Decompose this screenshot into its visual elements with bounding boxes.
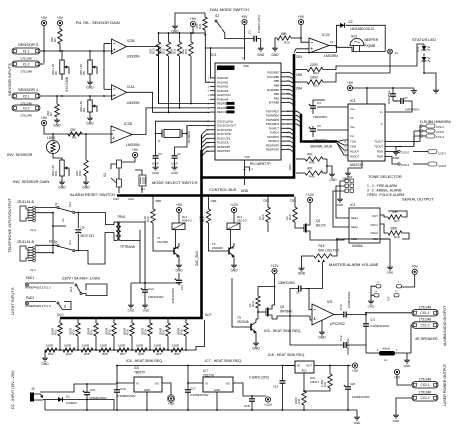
regulator IC7 7812: [203, 369, 233, 392]
resistor R49 47K: [296, 167, 327, 179]
capacitor C5: [309, 124, 349, 142]
svg-text:SDO/RC5: SDO/RC5: [267, 135, 279, 139]
svg-text:RC0/T1OSO: RC0/T1OSO: [217, 128, 232, 132]
svg-text:BS170: BS170: [316, 224, 326, 228]
svg-text:330K: 330K: [390, 227, 398, 231]
svg-text:CB1: CB1: [296, 55, 302, 59]
ground IC5: [318, 320, 326, 340]
svg-text:2SC945: 2SC945: [157, 240, 168, 244]
label DC1: [49, 240, 56, 244]
wire ICP left: [371, 286, 376, 299]
svg-text:R18: R18: [394, 235, 400, 239]
svg-text:VI: VI: [205, 382, 208, 386]
wire phone joins: [35, 212, 54, 254]
svg-text:100R: 100R: [118, 344, 126, 348]
op-amp IC2B: [112, 39, 140, 59]
svg-text:10K: 10K: [170, 49, 174, 54]
svg-text:CX3-2: CX3-2: [401, 151, 409, 155]
svg-text:GND: GND: [58, 186, 66, 190]
label SERIAL OUTPUT: [402, 197, 434, 202]
svg-text:RA3/AN3: RA3/AN3: [217, 89, 229, 93]
svg-text:+5V: +5V: [168, 402, 175, 406]
svg-text:CX3-6: CX3-6: [436, 130, 444, 134]
svg-text:V-: V-: [380, 122, 383, 126]
svg-text:20K LIN: 20K LIN: [51, 165, 55, 176]
svg-text:CB4: CB4: [296, 87, 302, 91]
power +5V ICP: [402, 265, 419, 287]
svg-text:D2: D2: [349, 20, 353, 24]
svg-text:SENSOR 1: SENSOR 1: [18, 87, 39, 92]
svg-text:2SD400: 2SD400: [212, 246, 223, 250]
svg-text:20K: 20K: [50, 37, 54, 42]
wire pot left gnd: [302, 256, 315, 266]
svg-text:GND: GND: [271, 53, 279, 57]
resistor R24 100R: [63, 344, 75, 356]
label SENSOR 0: [18, 42, 39, 47]
resistor R25 100R: [81, 344, 93, 356]
connector CX3-3: [385, 157, 446, 169]
svg-text:C11: C11: [370, 318, 376, 322]
ground dsub: [393, 147, 402, 161]
svg-text:CX1-1: CX1-1: [420, 311, 429, 315]
svg-text:LM339N: LM339N: [324, 54, 338, 58]
connector CX1-1: [412, 305, 438, 316]
power +12V amp: [270, 264, 279, 274]
resistor R31 200R: [51, 319, 63, 350]
svg-text:Q3: Q3: [280, 305, 284, 309]
relay RL1: [172, 215, 192, 230]
svg-text:7805TV: 7805TV: [134, 371, 146, 375]
svg-text:RL2: RL2: [237, 215, 243, 219]
resistor R5: [50, 26, 62, 51]
capacitor C13: [171, 273, 184, 303]
resistor R30 100R: [171, 344, 183, 356]
resistor R20 1K: [258, 203, 270, 232]
svg-text:INV. SENSOR GAIN: INV. SENSOR GAIN: [13, 179, 49, 184]
svg-text:IC2C: IC2C: [322, 33, 331, 37]
ground pullups: [329, 172, 337, 182]
svg-text:D-SUB9-H9M09RA: D-SUB9-H9M09RA: [420, 120, 452, 124]
svg-text:1MFD/100V: 1MFD/100V: [171, 288, 175, 303]
label DAC_BUS: [195, 251, 199, 266]
svg-text:RB5: RB5: [274, 79, 280, 83]
svg-text:RL1: RL1: [182, 215, 188, 219]
label tone option 3: [367, 193, 404, 197]
resistor RD2 220R: [294, 73, 390, 88]
svg-text:CB8: CB8: [155, 199, 161, 203]
svg-text:+5V: +5V: [190, 17, 197, 21]
resistor R10 68K: [275, 32, 302, 46]
ground t3: [252, 341, 260, 351]
power +5V relay1: [176, 203, 183, 223]
svg-text:LASER POWER OUTPUT: LASER POWER OUTPUT: [443, 363, 447, 406]
svg-text:R10: R10: [284, 41, 290, 45]
relay contact RL2a: [69, 284, 82, 295]
connector X1-1: [12, 48, 40, 61]
label DIAL MODE SWITCH: [210, 7, 249, 12]
svg-text:R09: R09: [309, 161, 315, 165]
svg-text:GND: GND: [128, 309, 136, 313]
svg-text:GND: GND: [318, 336, 326, 340]
svg-text:RD2/PSP2: RD2/PSP2: [266, 148, 280, 152]
svg-text:OSC1: OSC1: [370, 223, 378, 227]
svg-text:C4: C4: [317, 101, 321, 105]
connector J3 jack: [30, 387, 43, 402]
svg-text:GND: GND: [175, 269, 183, 273]
capacitor C19: [273, 365, 286, 411]
svg-text:C7: C7: [404, 96, 408, 100]
resistor R33 200R: [87, 319, 99, 350]
svg-text:GND: GND: [354, 421, 362, 425]
svg-text:CX3-7: CX3-7: [438, 152, 446, 156]
transistor T3: [237, 316, 258, 335]
pad PAD2: [25, 296, 51, 308]
svg-text:C10: C10: [339, 304, 343, 310]
svg-text:F/QMB: F/QMB: [365, 44, 376, 48]
wire q3 supply: [258, 274, 275, 305]
wire laser gnd: [396, 398, 412, 413]
relay contact RL2b: [57, 302, 71, 310]
capacitor C20: [344, 366, 370, 411]
ground T2: [230, 263, 238, 273]
wire amp fb: [290, 316, 341, 345]
resistor R7: [46, 96, 59, 117]
capacitor C18: [244, 396, 255, 411]
svg-text:GND: GND: [257, 53, 265, 57]
svg-text:1K: 1K: [258, 216, 262, 220]
resistor R27 100R: [117, 344, 129, 356]
wire IC6 gnd: [146, 392, 148, 411]
svg-text:DC0: DC0: [57, 313, 64, 317]
svg-text:C2+: C2+: [350, 125, 355, 129]
svg-text:0.33MFD/50V: 0.33MFD/50V: [190, 393, 209, 397]
power +5V out: [167, 395, 175, 406]
label INV. SENSOR: [7, 152, 33, 157]
svg-text:R18: R18: [319, 244, 325, 248]
svg-text:J1-2: J1-2: [30, 228, 36, 232]
svg-text:SEL1: SEL1: [351, 216, 358, 220]
wire pad2 row: [29, 301, 56, 303]
wire T2 base: [209, 223, 225, 251]
capacitor C11: [363, 318, 390, 330]
power +12V out: [264, 397, 273, 407]
svg-text:100R: 100R: [100, 344, 108, 348]
transformer TRN1: [116, 215, 135, 249]
svg-text:20K LIN: 20K LIN: [79, 64, 83, 75]
svg-text:OUT: OUT: [372, 214, 378, 218]
svg-text:+5V: +5V: [412, 265, 419, 269]
wire pullup join: [326, 159, 332, 173]
svg-text:IC2D: IC2D: [124, 122, 133, 126]
svg-text:GND: GND: [41, 362, 49, 366]
connector X2-2: [12, 105, 40, 118]
svg-text:OSC2: OSC2: [370, 231, 378, 235]
potentiometer R9: [79, 96, 97, 116]
svg-text:DC - INPUT (15V - 25V): DC - INPUT (15V - 25V): [11, 371, 15, 409]
resistor R43 2.4R: [304, 366, 332, 392]
svg-text:22K: 22K: [75, 171, 79, 176]
svg-text:C2-: C2-: [350, 134, 354, 138]
svg-text:GND: GND: [144, 388, 150, 392]
connector J1-1 RJ11: [20, 246, 36, 272]
label MASTER ALARM VOLUME: [329, 262, 379, 267]
svg-text:1751248: 1751248: [419, 318, 432, 322]
svg-text:20K LIN: 20K LIN: [79, 101, 83, 112]
svg-text:V+: V+: [380, 110, 384, 114]
wire gnd spine: [131, 283, 180, 303]
svg-text:470MFD/50V: 470MFD/50V: [89, 396, 107, 400]
label CB1: [296, 55, 302, 59]
wire IC2C out: [296, 25, 385, 52]
svg-text:100R: 100R: [46, 344, 54, 348]
wire osc1: [155, 121, 210, 153]
wire opamp bias tie: [104, 44, 112, 90]
wire t3 base: [232, 278, 246, 327]
svg-text:DCF: DCF: [205, 313, 212, 317]
wire load box: [82, 284, 107, 296]
label DB3: [288, 164, 292, 170]
svg-text:IN: IN: [297, 364, 300, 368]
wire IC2A output: [127, 92, 210, 113]
ground ladder: [41, 356, 49, 366]
svg-text:DAC_BUS: DAC_BUS: [195, 251, 199, 266]
svg-text:ALARM RESET SWITCH: ALARM RESET SWITCH: [70, 192, 115, 197]
svg-text:BEEPER: BEEPER: [365, 38, 379, 42]
svg-text:MODE SELECT SWITCH: MODE SELECT SWITCH: [152, 180, 198, 185]
wire IC1 left pin stubs: [207, 78, 215, 153]
svg-text:CX3-4: CX3-4: [436, 135, 444, 139]
bus DAC horizontal: [60, 317, 203, 320]
svg-text:RD0/PSP0: RD0/PSP0: [217, 145, 231, 149]
crystal XT1: [156, 126, 192, 144]
svg-text:+5V: +5V: [57, 16, 64, 20]
svg-text:10MFD/36V: 10MFD/36V: [278, 281, 296, 285]
svg-text:200R: 200R: [159, 327, 163, 335]
svg-text:LM339N: LM339N: [127, 101, 140, 105]
svg-text:330R: 330R: [294, 397, 298, 404]
label ALARM RESET SWITCH: [70, 192, 115, 197]
svg-text:TRN1: TRN1: [117, 215, 126, 219]
photoresistor LDR1: [47, 134, 63, 160]
svg-text:1MFD/50V: 1MFD/50V: [313, 138, 327, 142]
svg-text:230V / 5A MAX. LOAD: 230V / 5A MAX. LOAD: [62, 277, 100, 281]
svg-text:CB3: CB3: [290, 199, 296, 203]
svg-text:CX3-8: CX3-8: [438, 164, 446, 168]
resistor R16b 1K: [285, 203, 300, 228]
wire IC4 vss: [380, 238, 390, 240]
wire RL2 coil: [231, 230, 235, 249]
svg-text:TPTRANS: TPTRANS: [120, 245, 135, 249]
svg-text:RX/RC7: RX/RC7: [269, 126, 279, 130]
power +12V relay2: [230, 203, 239, 223]
wire IC2C inputs: [294, 38, 309, 53]
ground pot right: [387, 265, 395, 275]
svg-text:SYS GAIN: SYS GAIN: [65, 76, 69, 92]
ground C1: [257, 46, 265, 57]
wire IC7 out: [233, 383, 266, 397]
switch S2: [215, 14, 222, 28]
svg-text:0.22MFD/100V: 0.22MFD/100V: [370, 324, 390, 328]
bus serial: [301, 114, 337, 142]
svg-text:+5V: +5V: [176, 203, 183, 207]
transistor T2: [212, 242, 234, 259]
power +12V Q2: [306, 193, 315, 221]
label sensor gain note: [76, 20, 120, 25]
svg-text:RD2: RD2: [313, 84, 319, 88]
resistor RD1 220R: [294, 44, 424, 75]
svg-text:C14: C14: [148, 287, 154, 291]
label DC INPUT: [11, 371, 15, 409]
svg-text:7812TV: 7812TV: [203, 373, 215, 377]
svg-text:S2: S2: [54, 240, 58, 244]
svg-text:GND: GND: [252, 347, 260, 351]
ground below R03: [82, 180, 90, 190]
wire bank col4: [190, 56, 192, 104]
svg-text:LP1: LP1: [347, 175, 353, 179]
svg-text:CX1-2: CX1-2: [420, 323, 429, 327]
svg-text:C1: C1: [248, 30, 252, 34]
svg-text:ROB-5-S: ROB-5-S: [182, 220, 192, 223]
svg-text:RA0/AN0: RA0/AN0: [217, 76, 229, 80]
svg-text:OPEN : POLICE ALARM: OPEN : POLICE ALARM: [367, 193, 404, 197]
power +5V max232: [347, 81, 414, 104]
label TELEPHONE IO: [7, 198, 12, 253]
svg-text:220R: 220R: [310, 76, 318, 80]
svg-text:UM66A: UM66A: [352, 244, 364, 248]
svg-text:OEC-3-S: OEC-3-S: [237, 220, 247, 223]
resistor R14 2.2K: [199, 203, 211, 223]
svg-text:C19: C19: [273, 385, 279, 389]
resistor R18 330K: [380, 224, 409, 239]
label CB4: [296, 87, 302, 91]
wire bank col2: [168, 56, 170, 112]
wire IC7 gnd: [216, 392, 218, 411]
connector CX3-4: [420, 134, 445, 139]
svg-text:IC7 - HEAT SINK REQ.: IC7 - HEAT SINK REQ.: [205, 359, 242, 363]
label tone option 2: [367, 189, 402, 193]
svg-text:GND: GND: [393, 419, 401, 423]
label CA0: [128, 197, 134, 201]
svg-text:1751248: 1751248: [419, 305, 432, 309]
svg-text:1K: 1K: [285, 216, 289, 220]
svg-text:1751248: 1751248: [20, 57, 32, 61]
connector CX3-2: [385, 150, 446, 156]
ground below R01: [58, 180, 66, 190]
ground below R7: [53, 118, 61, 128]
label CA3: [113, 197, 119, 201]
potentiometer R6: [51, 51, 69, 80]
pad PAD1: [25, 276, 51, 290]
svg-text:RD1: RD1: [313, 71, 319, 75]
label 4R SPEAKER: [415, 337, 438, 341]
capacitor C16: [114, 382, 136, 411]
svg-text:C1-: C1-: [350, 116, 354, 120]
svg-text:200R: 200R: [177, 327, 181, 335]
wire pad1 row: [29, 282, 74, 284]
label IC7 heat sink: [205, 359, 242, 363]
svg-text:DIAL MODE SWITCH: DIAL MODE SWITCH: [210, 7, 249, 12]
svg-text:20.0MHz: 20.0MHz: [187, 130, 191, 143]
wire sensor1 row: [40, 95, 113, 97]
svg-text:100R: 100R: [172, 344, 180, 348]
wire IC8 out: [314, 365, 351, 367]
wire sensor0 row: [40, 50, 113, 52]
svg-text:MOV 231: MOV 231: [81, 234, 95, 238]
resistor R15 2.2K: [143, 203, 155, 223]
svg-text:CX2-2: CX2-2: [420, 396, 429, 400]
capacitor C7: [393, 96, 419, 112]
label rj11 a: [17, 200, 34, 204]
svg-text:+5V: +5V: [298, 15, 305, 19]
svg-text:R30: R30: [174, 352, 180, 356]
label c18 value: [249, 376, 269, 380]
wire LP1 to IC4: [333, 186, 349, 227]
capacitor C21: [83, 384, 107, 411]
op-amp IC2C: [309, 33, 338, 58]
svg-text:SENSOR INPUTS: SENSOR INPUTS: [7, 63, 12, 96]
wire resistor bank top: [158, 32, 206, 34]
svg-text:100MFD/36V: 100MFD/36V: [347, 291, 351, 308]
svg-text:200R: 200R: [87, 327, 91, 335]
svg-text:S2: S2: [215, 14, 219, 18]
svg-text:RD3/PSP3: RD3/PSP3: [266, 143, 280, 147]
connector CX1-2: [412, 318, 438, 329]
power +5V supply V2: [57, 16, 64, 26]
svg-text:47K: 47K: [307, 167, 314, 171]
svg-text:R28: R28: [138, 352, 144, 356]
svg-text:RC1/T1OSI: RC1/T1OSI: [217, 132, 231, 136]
svg-text:200R: 200R: [141, 327, 145, 335]
svg-text:R24: R24: [66, 352, 72, 356]
label D2 part: [350, 27, 374, 31]
svg-text:0.33MFD/50V: 0.33MFD/50V: [117, 394, 136, 398]
svg-text:1751248: 1751248: [419, 377, 432, 381]
resistor R37 200R: [159, 319, 171, 350]
component RJ network: [135, 170, 146, 193]
wire pot wiper path: [306, 262, 323, 289]
svg-text:R2IN: R2IN: [377, 155, 383, 159]
resistor R35 200R: [123, 319, 135, 350]
svg-text:RD1/PSP1: RD1/PSP1: [217, 149, 231, 153]
svg-text:200R: 200R: [123, 327, 127, 335]
bus DAC vertical: [201, 135, 203, 318]
resistor R36 200R: [141, 319, 153, 350]
svg-text:IC3: IC3: [350, 99, 355, 103]
svg-text:L1: L1: [384, 358, 388, 362]
label SYS GAIN: [65, 76, 69, 92]
svg-text:GND: GND: [143, 309, 151, 313]
svg-text:OUT: OUT: [306, 364, 312, 368]
resistor R32 200R: [69, 319, 81, 350]
svg-text:ALARM AUDIO OUTPUT: ALARM AUDIO OUTPUT: [443, 305, 447, 346]
wire dial to RA0: [210, 48, 212, 78]
svg-text:R26: R26: [102, 352, 108, 356]
wire tap CB2a: [263, 197, 269, 204]
label INV. SENSOR GAIN: [13, 179, 49, 184]
svg-text:+12V: +12V: [270, 264, 279, 268]
svg-text:1 - 2 : FIRE ALARM: 1 - 2 : FIRE ALARM: [367, 184, 397, 188]
svg-text:PSP5/RD5: PSP5/RD5: [266, 118, 280, 122]
capacitor C6: [387, 88, 396, 104]
label DC0: [57, 313, 64, 317]
wire trn sec bot: [121, 230, 140, 283]
svg-text:RB4: RB4: [274, 84, 280, 88]
svg-text:R17: R17: [394, 219, 400, 223]
svg-text:RA4/T0CKI: RA4/T0CKI: [217, 93, 231, 97]
svg-text:C12: C12: [339, 335, 343, 341]
svg-text:OSC2/CLKOUT: OSC2/CLKOUT: [217, 124, 236, 128]
potentiometer R8: [79, 51, 97, 80]
